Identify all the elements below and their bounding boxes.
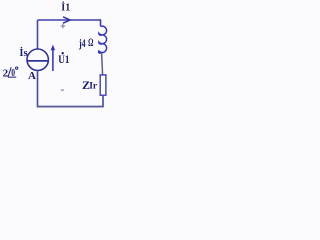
svg-text:İs: İs — [19, 47, 27, 59]
current source Is circle — [27, 49, 48, 70]
minus sign node marker — [61, 89, 64, 91]
svg-text:A: A — [28, 70, 36, 82]
current source transverse bar — [27, 60, 48, 62]
svg-text:0: 0 — [11, 67, 15, 79]
wire left lower — [37, 70, 39, 106]
svg-text:Ir: Ir — [89, 82, 98, 92]
svg-text:2: 2 — [3, 68, 9, 80]
arrowhead I1 on top wire — [63, 17, 70, 23]
svg-text:İ1: İ1 — [61, 2, 70, 14]
inductor coil j4 ohm — [99, 26, 107, 53]
wire below impedance box — [102, 95, 104, 106]
wire between coil and impedance box — [102, 53, 103, 75]
impedance box Zir — [100, 75, 106, 95]
wire top horizontal — [38, 19, 101, 21]
voltage arrow U1 — [52, 48, 54, 72]
wire right upper — [100, 19, 102, 26]
plus sign node marker — [61, 24, 66, 29]
svg-text:j4: j4 — [78, 36, 85, 50]
wire bottom horizontal — [37, 106, 104, 108]
svg-text:Ω: Ω — [88, 37, 93, 49]
wire left upper — [37, 20, 39, 49]
svg-text:U1: U1 — [58, 52, 69, 66]
